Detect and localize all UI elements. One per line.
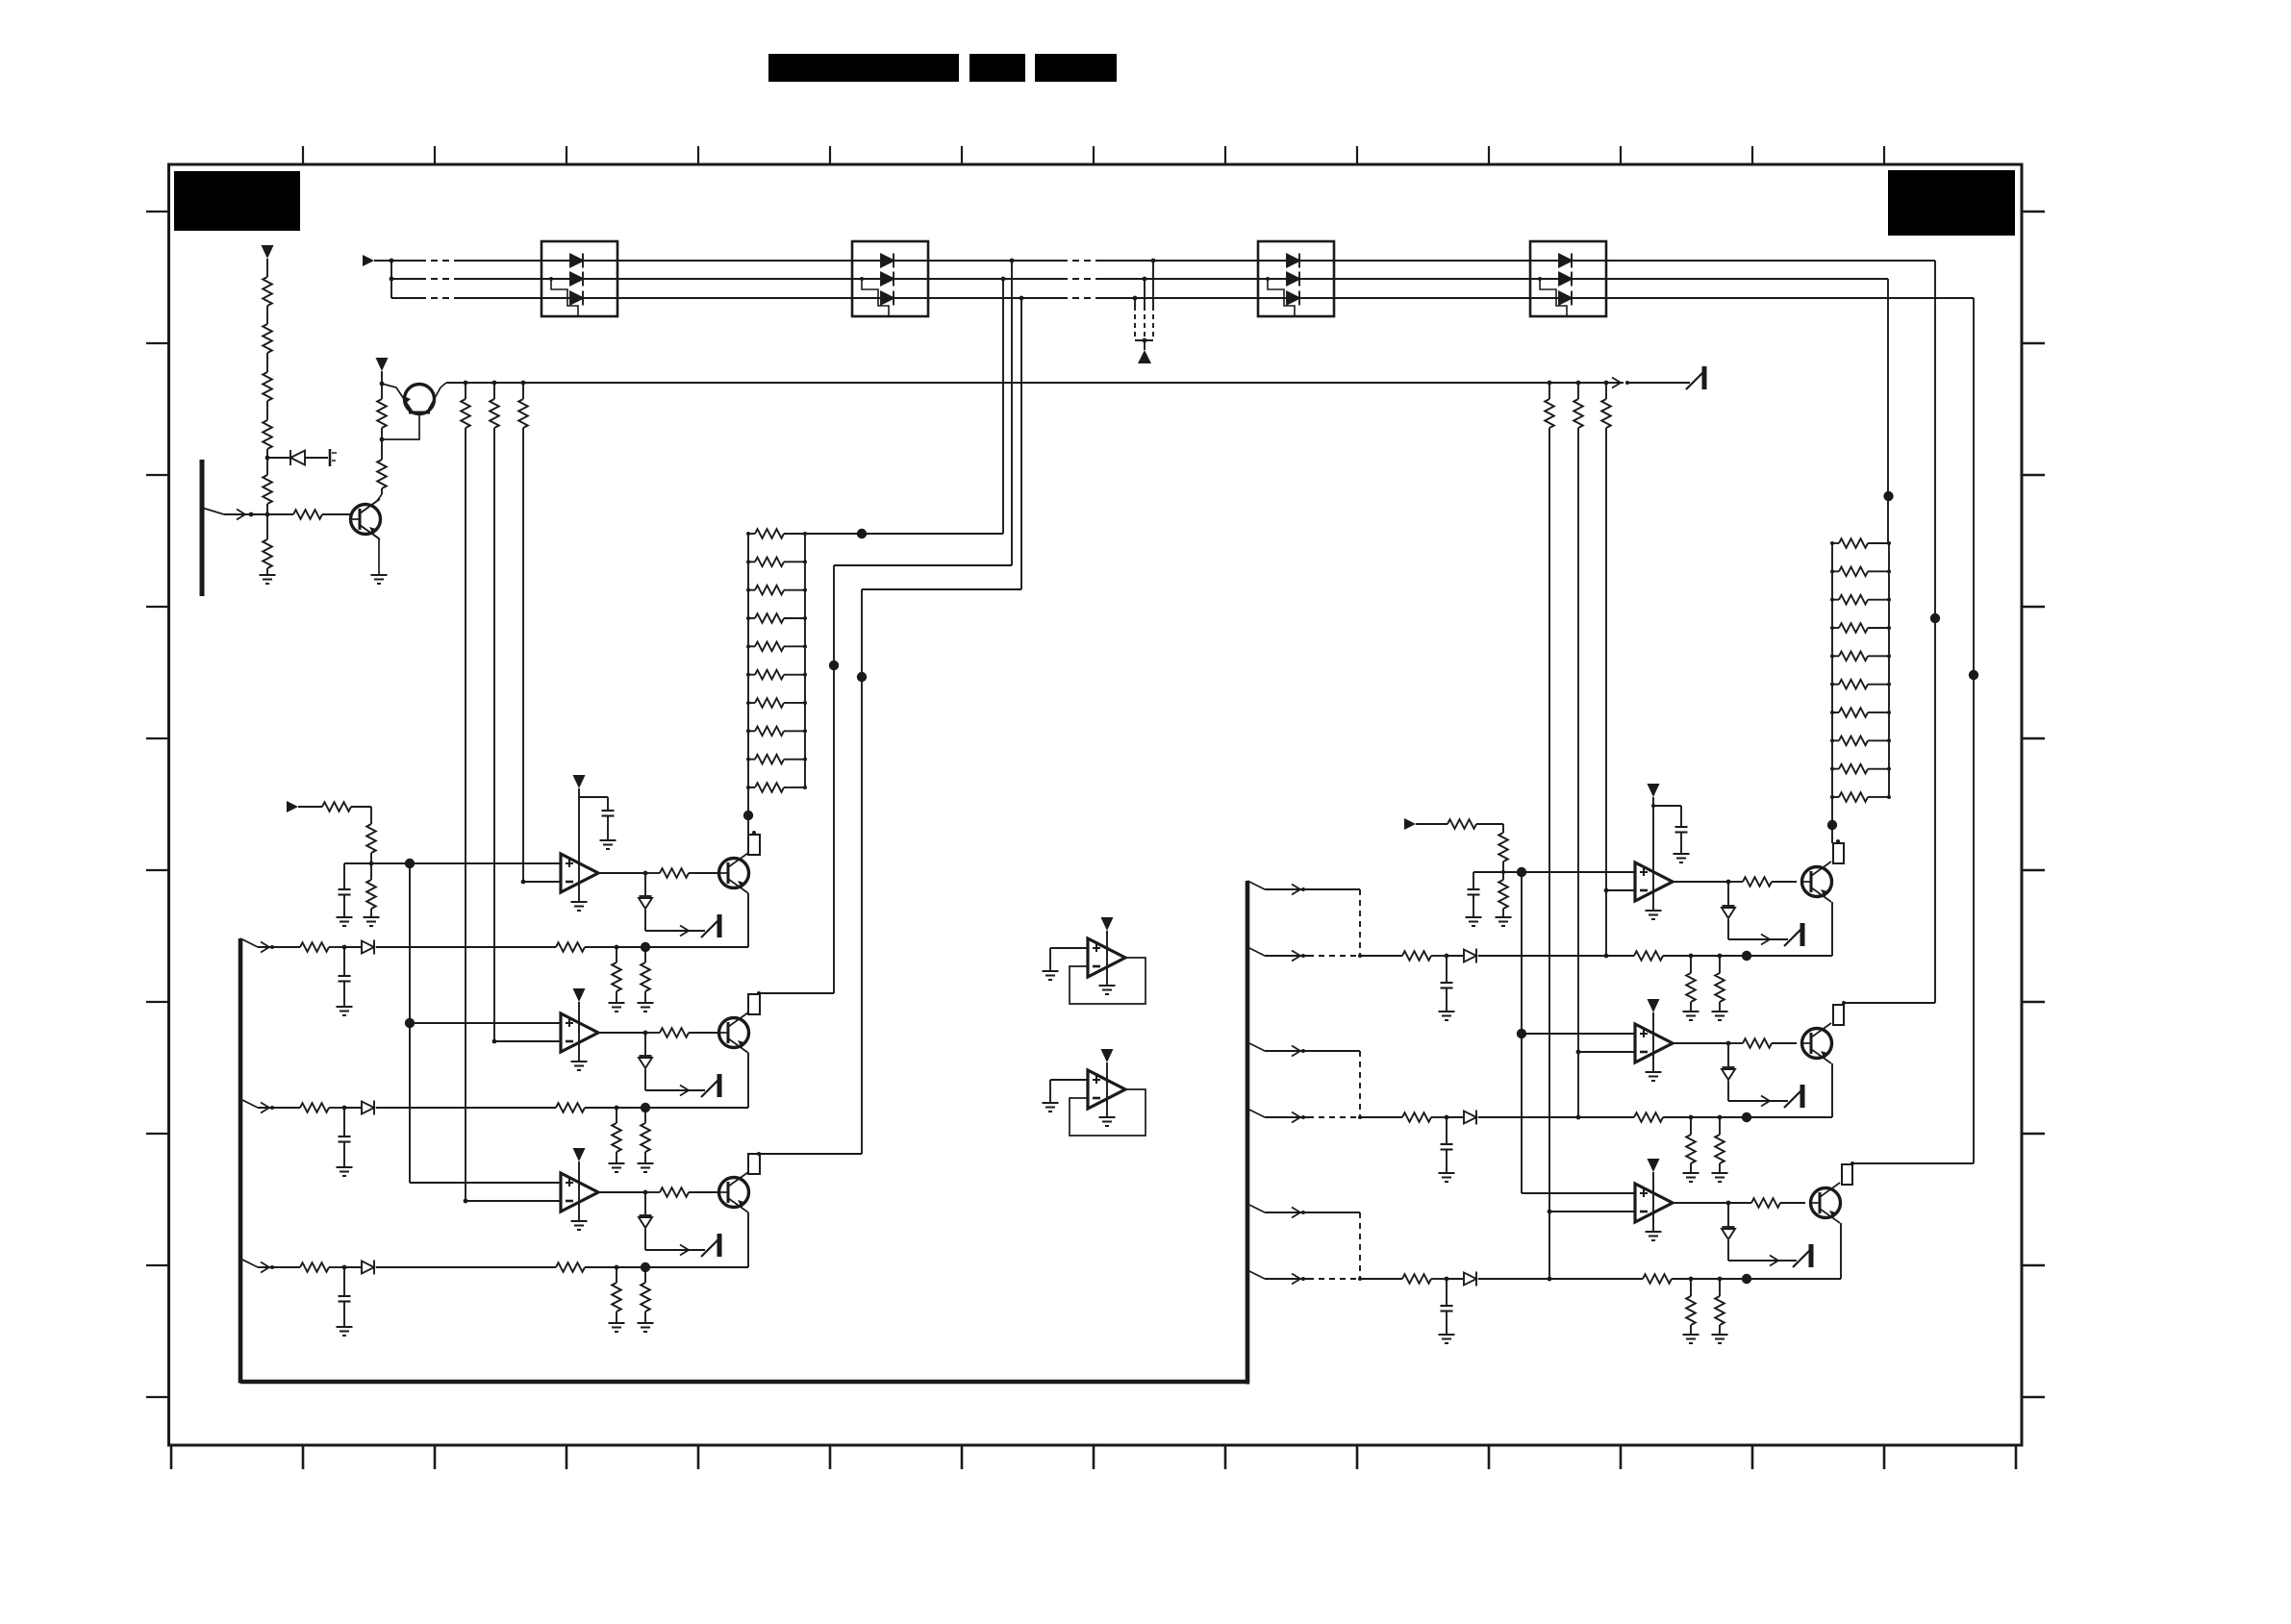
diode D4c: [1559, 291, 1572, 306]
wire ch2 diode: [644, 1033, 646, 1056]
node R-ch1 shunt1: [1689, 954, 1694, 959]
node R-ch2 collector: [1842, 1001, 1846, 1005]
resistor line R-ch3: [1643, 1274, 1672, 1284]
wire R-ch1 dashed drop: [1359, 889, 1361, 956]
resistor shunt ch3 x641: [612, 1283, 621, 1312]
node bus1 drop right: [1930, 613, 1940, 623]
resistor ladder-R 7: [1839, 708, 1868, 717]
input arrow bus left: [363, 255, 374, 266]
node R-ch1 shunt2: [1718, 954, 1723, 959]
resistor ladder-R 3: [1839, 595, 1868, 605]
wire R-ch3 dashed input: [1308, 1278, 1360, 1280]
wire R-ch3 output: [1673, 1202, 1728, 1204]
wire R-ch1 line mid: [1478, 955, 1634, 957]
diode D1a: [570, 254, 583, 268]
transistor Q2: [719, 1012, 749, 1053]
resistor R108: [377, 399, 387, 428]
op-amp U2: [561, 1013, 598, 1052]
wire R-ch2 line mid: [1478, 1116, 1634, 1118]
diode D4a: [1559, 254, 1572, 268]
power supply arrow follower U10: [1101, 917, 1114, 931]
arrow R-ch3 jack: [1770, 1256, 1778, 1266]
diode array D4: [1530, 241, 1606, 316]
resistor ladder-L 4: [755, 613, 784, 623]
ground input cap R-ch3: [1439, 1335, 1455, 1343]
connector box R-ch1 collector: [1833, 843, 1844, 863]
node ch3 shunt2: [641, 1262, 650, 1272]
wire ladder-R right rail: [1888, 543, 1890, 797]
wire bus line1: [391, 260, 419, 262]
wire R-ch3 to jack: [1728, 1260, 1797, 1262]
wire Q102 emitter: [382, 384, 412, 411]
node right chain ch2: [1517, 1029, 1526, 1038]
node ch3 input cap: [342, 1265, 347, 1270]
ground shunt R-ch1 x1758: [1683, 1012, 1699, 1020]
node bus2 tap: [1001, 277, 1006, 282]
power supply arrow R-ch2: [1648, 999, 1660, 1012]
node R-ch2 shunt1: [1689, 1115, 1694, 1120]
connector box ch3 collector: [748, 1154, 760, 1174]
redacted block top-right: [1888, 170, 2015, 236]
wire R-ch3 inverting input: [1549, 1211, 1635, 1212]
jack ch3: [701, 1234, 719, 1257]
wire follower U10 feedback loop: [1070, 958, 1145, 1004]
node ch2 shunt1: [615, 1106, 619, 1111]
transistor Q4: [1802, 862, 1832, 902]
ground C210: [1466, 917, 1482, 926]
wire divider: [266, 259, 268, 277]
wire R2 noninverting input: [1522, 1033, 1635, 1035]
wire plus chain: [409, 863, 411, 1183]
wire stagger D4: [1540, 279, 1567, 316]
node R-ch3 input cap: [1445, 1277, 1449, 1282]
resistor base R-ch3: [1751, 1198, 1780, 1208]
wire right bias cap: [1473, 872, 1474, 889]
wire ch1 feedback: [645, 946, 748, 948]
diode array D2: [852, 241, 928, 316]
node ch2 input cap: [342, 1106, 347, 1111]
node divider mid: [265, 456, 270, 461]
resistor shunt R-ch1 x1758: [1686, 973, 1696, 1002]
wire R-ch3 collector link: [1852, 1162, 1974, 1164]
wire ladder-L right rail: [804, 534, 806, 787]
wire ch3 diode: [644, 1192, 646, 1215]
resistor ladder-L 1: [755, 529, 784, 538]
ground shunt ch2 x671: [638, 1163, 654, 1172]
resistor line ch1: [556, 942, 585, 952]
connector box R-ch3 collector: [1842, 1164, 1852, 1185]
node R-ch3 emitter join: [1742, 1274, 1751, 1284]
capacitor C211: [1675, 827, 1688, 833]
wire R-ch2 upper tap: [1247, 1042, 1265, 1051]
wire Q103 collector: [360, 494, 382, 513]
diode D301: [639, 1056, 652, 1068]
wire vertical to left ch3 inverting input: [465, 428, 466, 1201]
wire R-ch1 diode: [1727, 882, 1729, 906]
ground follower U10: [1099, 986, 1116, 994]
wire R-ch1 lower tap: [1247, 947, 1265, 956]
wire follower U10 plus: [1050, 947, 1088, 949]
node R-ch1 inverting tap: [1604, 888, 1609, 893]
resistor input ch1: [300, 942, 329, 952]
wire R-ch1 dashed input: [1308, 955, 1360, 957]
wire R-ch2 emitter: [1831, 1063, 1833, 1117]
power supply arrow Q102: [376, 358, 389, 371]
bus bar bottom: [240, 1380, 1247, 1385]
node bus3 mid: [857, 672, 867, 682]
node rail tap left ch3: [464, 381, 468, 386]
wire vertical to right ch2: [1577, 428, 1579, 1117]
ground shunt R-ch3 x1788: [1712, 1335, 1728, 1343]
transistor Q6: [1811, 1183, 1841, 1223]
resistor R106: [263, 539, 272, 568]
wire R-ch1 collector to ladder: [1831, 825, 1833, 843]
wire Q102 collector: [428, 383, 446, 411]
resistor ladder-L 7: [755, 698, 784, 708]
resistor line R-ch2: [1634, 1112, 1663, 1122]
resistor shunt R-ch3 x1788: [1715, 1296, 1725, 1325]
node R-ch3 feedback join: [1548, 1277, 1552, 1282]
node ch1 input cap: [342, 945, 347, 950]
node R-ch2 emitter join: [1742, 1112, 1751, 1122]
arrow ch3 input: [261, 1262, 269, 1273]
resistor R211: [1498, 833, 1508, 862]
node ch3 shunt1: [615, 1265, 619, 1270]
wire bias chain: [381, 384, 383, 399]
wire R-ch2 supply: [1652, 1012, 1654, 1072]
wire follower U11 plus: [1050, 1079, 1088, 1081]
wire bus1 drop: [1011, 261, 1013, 565]
ground op-amp U1: [571, 902, 588, 911]
ground input cap R-ch1: [1439, 1012, 1455, 1020]
wire R3 noninverting input: [1522, 1192, 1635, 1194]
wire ch3 line: [376, 1266, 556, 1268]
jack ch2: [701, 1074, 719, 1097]
power supply arrow ch2: [573, 988, 586, 1002]
diode D411: [1722, 1227, 1735, 1239]
wire R-ch1 output: [1673, 881, 1728, 883]
diode D401: [639, 1215, 652, 1228]
ground input cap R-ch2: [1439, 1173, 1455, 1182]
resistor input ch3: [300, 1262, 329, 1272]
node R-ch2 input merge: [1358, 1115, 1362, 1119]
ground divider: [260, 575, 276, 584]
node R-ch3 output: [1726, 1201, 1731, 1206]
wire ladder-L left rail: [747, 534, 749, 815]
node bus2 stub: [1143, 277, 1147, 282]
wire R-ch2 upper link: [1265, 1050, 1360, 1052]
wire ch2 output: [598, 1032, 645, 1034]
ground follower U11: [1099, 1117, 1116, 1126]
wire vertical to left ch1 inverting input: [522, 428, 524, 882]
node right bias mid: [1501, 870, 1505, 874]
redacted title bar 1: [768, 54, 959, 82]
wire ch1 noninverting input: [371, 862, 561, 864]
transistor Q3: [719, 1172, 749, 1212]
ground C111: [600, 840, 617, 849]
wire ladder-R left rail: [1831, 543, 1833, 825]
resistor R110: [322, 802, 351, 812]
wire ch2 collector link: [759, 992, 834, 994]
resistor R109: [377, 460, 387, 488]
diode D3c: [1287, 291, 1299, 306]
node ch1 shunt2: [641, 942, 650, 952]
node ch2 collector: [757, 991, 761, 995]
ground shunt R-ch3 x1758: [1683, 1335, 1699, 1343]
node R-ch1 input cap: [1445, 954, 1449, 959]
wire stagger D2: [862, 279, 889, 316]
node bus3 stub: [1133, 296, 1138, 301]
wire R-ch3 lower tap: [1247, 1270, 1265, 1279]
op-amp follower U11: [1088, 1070, 1125, 1109]
wire stagger D3: [1268, 279, 1295, 316]
node ch2 shunt2: [641, 1103, 650, 1112]
ground op-amp U4: [1646, 911, 1662, 919]
wire R-ch2 dashed input: [1308, 1116, 1360, 1118]
node ladder-R bottom: [1827, 820, 1837, 830]
wire ch1 inverting input: [523, 881, 561, 883]
resistor shunt R-ch2 x1788: [1715, 1135, 1725, 1163]
connector box R-ch2 collector: [1833, 1005, 1844, 1025]
wire bus3 drop: [1020, 298, 1022, 589]
ground shunt ch3 x671: [638, 1323, 654, 1332]
wire ch1 input tap: [240, 938, 258, 947]
redacted title bar 2: [969, 54, 1025, 82]
node ch2 input: [270, 1106, 274, 1110]
op-amp follower U10: [1088, 938, 1125, 977]
redacted block top-left: [174, 171, 300, 231]
node R-ch3 shunt2: [1718, 1277, 1723, 1282]
ground input cap ch1: [337, 1007, 353, 1015]
resistor R104: [263, 420, 272, 449]
node ch3 input: [270, 1265, 274, 1269]
wire bus line2: [391, 278, 419, 280]
wire follower U11 feedback loop: [1070, 1089, 1145, 1136]
diode D1c: [570, 291, 583, 306]
ground R212: [1496, 917, 1512, 926]
resistor ladder-R 10: [1839, 792, 1868, 802]
wire ch2 input: [258, 1107, 300, 1109]
node ch3 inverting tap: [464, 1199, 468, 1204]
ground follower U11 plus: [1043, 1103, 1059, 1112]
input arrow right bias: [1404, 818, 1416, 830]
node R-ch1 output: [1726, 880, 1731, 885]
resistor base ch2: [660, 1028, 689, 1037]
node bus1 stub: [1151, 259, 1156, 263]
wire R-ch3 emitter: [1840, 1223, 1842, 1279]
wire bar tap: [202, 508, 224, 514]
resistor feed right ch1: [1601, 399, 1611, 428]
node ch2 inverting tap: [492, 1039, 497, 1044]
resistor R105: [263, 475, 272, 504]
node bus1 mid: [829, 661, 839, 670]
node ch2 output: [643, 1031, 648, 1036]
node Q102 emitter: [380, 382, 385, 387]
resistor shunt ch2 x671: [641, 1123, 650, 1152]
op-amp U6: [1635, 1184, 1673, 1222]
arrow R-ch2 input: [1292, 1112, 1300, 1123]
resistor input R-ch1: [1402, 951, 1431, 961]
wire R-ch2 collector link: [1844, 1002, 1935, 1004]
diode D201: [639, 896, 652, 909]
wire R-ch1 inverting input: [1606, 889, 1635, 891]
resistor ladder-R 4: [1839, 623, 1868, 633]
node ch1 shunt1: [615, 945, 619, 950]
resistor R102: [263, 324, 272, 353]
wire stagger D1: [551, 279, 578, 316]
wire R-ch2 line: [1360, 1116, 1402, 1118]
wire ch1 to jack: [645, 930, 705, 932]
wire bus3 to ch3 collector: [861, 589, 863, 1154]
wire R-ch2 lower tap: [1247, 1109, 1265, 1117]
resistor feed left ch2: [490, 399, 499, 428]
ground C110: [337, 917, 353, 926]
wire R-ch3 line mid: [1478, 1278, 1643, 1280]
node bus1 tap: [1010, 259, 1015, 263]
node ch3 collector: [757, 1152, 761, 1156]
wire R-ch3 diode: [1727, 1203, 1729, 1227]
wire ch2 emitter: [747, 1053, 749, 1108]
wire ch1 diode: [644, 873, 646, 896]
wire R-ch2 to jack: [1728, 1100, 1788, 1102]
wire ch1 bias: [370, 807, 372, 824]
node ch1 inverting tap: [521, 880, 526, 885]
resistor shunt R-ch3 x1758: [1686, 1296, 1696, 1325]
capacitor input ch1: [339, 976, 351, 982]
wire rail 398: [446, 382, 1624, 384]
resistor input R-ch2: [1402, 1112, 1431, 1122]
resistor base ch3: [660, 1187, 689, 1197]
node bus junction: [390, 259, 394, 263]
resistor shunt R-ch1 x1788: [1715, 973, 1725, 1002]
capacitor input ch3: [339, 1296, 351, 1302]
wire ch3 to jack: [645, 1249, 705, 1251]
resistor R210: [1448, 819, 1476, 829]
resistor ladder-L 10: [755, 783, 784, 792]
diode D2b: [881, 272, 894, 287]
wire R-ch1 upper tap: [1247, 881, 1265, 889]
capacitor input R-ch2: [1441, 1144, 1453, 1150]
bus bar left: [239, 938, 243, 1384]
power supply arrow ch1: [573, 775, 586, 788]
diode D101: [290, 450, 305, 465]
ground input cap ch3: [337, 1327, 353, 1336]
wire R-ch3 line: [1360, 1278, 1402, 1280]
ground shunt ch1 x671: [638, 1003, 654, 1012]
resistor ladder-R 6: [1839, 680, 1868, 689]
node rail R-tap1: [1548, 381, 1552, 386]
wire ladder-L top to bus2: [805, 533, 1003, 535]
wire vertical to right ch3: [1548, 428, 1550, 1279]
resistor ladder-R 2: [1839, 567, 1868, 577]
capacitor C111: [602, 811, 615, 816]
node R-ch3 shunt1: [1689, 1277, 1694, 1282]
connector box ch1 collector: [748, 835, 760, 855]
arrow ch2 jack: [680, 1086, 689, 1096]
wire ch3 output: [598, 1191, 645, 1193]
resistor base R-ch2: [1743, 1038, 1772, 1048]
wire ch1 collector to ladder: [747, 815, 749, 835]
ground R112: [364, 917, 380, 926]
wire vertical to right ch1: [1605, 428, 1607, 956]
wire ch3 collector link: [759, 1153, 862, 1155]
resistor shunt R-ch2 x1758: [1686, 1135, 1696, 1163]
wire R-ch2 output: [1673, 1042, 1728, 1044]
jack rail end: [1686, 366, 1704, 389]
node Q102 base: [380, 437, 385, 442]
wire ch1 emitter: [747, 893, 749, 947]
wire ch3 inverting input: [466, 1200, 561, 1202]
wire R-ch3 upper link: [1265, 1212, 1360, 1213]
connector pad diode branch: [329, 449, 332, 466]
wire ch3 supply: [578, 1162, 580, 1221]
wire R-ch1 line: [1360, 955, 1402, 957]
wire ch2 supply: [578, 1002, 580, 1062]
op-amp U4: [1635, 862, 1673, 901]
op-amp U5: [1635, 1024, 1673, 1062]
diode D3a: [1287, 254, 1299, 268]
arrow ch2 input: [261, 1103, 269, 1113]
ground C211: [1674, 854, 1690, 862]
node R-ch2 shunt2: [1718, 1115, 1723, 1120]
resistor ladder-L 3: [755, 586, 784, 595]
input arrow ch1 bias: [287, 801, 298, 812]
resistor ladder-L 5: [755, 642, 784, 652]
diode array D1: [541, 241, 617, 316]
resistor ladder-R 1: [1839, 538, 1868, 548]
node chain ch2: [405, 1018, 415, 1028]
wire ch3 feedback: [645, 1266, 748, 1268]
wire R-ch2 inverting input: [1578, 1051, 1635, 1053]
wire ch3 emitter: [747, 1212, 749, 1267]
node rail tap left ch1: [521, 381, 526, 386]
power supply arrow R-ch3: [1648, 1159, 1660, 1172]
resistor input R-ch3: [1402, 1274, 1431, 1284]
ground shunt ch3 x641: [609, 1323, 625, 1332]
resistor R112: [366, 880, 376, 909]
resistor ladder-R 5: [1839, 652, 1868, 662]
wire Q102 base link: [382, 429, 419, 439]
node bus2 drop right: [1883, 491, 1893, 501]
ground op-amp U2: [571, 1062, 588, 1070]
arrow R-ch3 input: [1292, 1274, 1300, 1285]
jack ch1: [701, 914, 719, 937]
diode array D3: [1258, 241, 1334, 316]
wire R-ch1 to jack: [1728, 938, 1788, 940]
diode D4b: [1559, 272, 1572, 287]
ground op-amp U6: [1646, 1232, 1662, 1240]
wire ch2 input tap: [240, 1099, 258, 1108]
node R-ch3 input merge: [1358, 1277, 1362, 1281]
arrow R-ch2 jack: [1761, 1096, 1770, 1107]
resistor line ch2: [556, 1103, 585, 1112]
connector stub wires: [1152, 261, 1154, 306]
resistor base R-ch1: [1743, 877, 1772, 887]
wire R-ch1 supply: [1652, 797, 1654, 911]
jack R-ch2: [1784, 1085, 1802, 1108]
node ch1 output: [643, 871, 648, 876]
wire ch2 noninverting input: [410, 1022, 561, 1024]
resistor shunt ch1 x641: [612, 962, 621, 991]
wire bus line3: [391, 297, 419, 299]
connector box ch2 collector: [748, 994, 760, 1014]
wire Q103 emitter: [360, 525, 379, 575]
wire bus1 horizontal: [834, 564, 1012, 566]
wire ch1 bias cap: [343, 863, 345, 889]
wire ch3 input tap: [240, 1259, 258, 1267]
node divider base: [265, 512, 270, 517]
resistor shunt ch1 x671: [641, 962, 650, 991]
